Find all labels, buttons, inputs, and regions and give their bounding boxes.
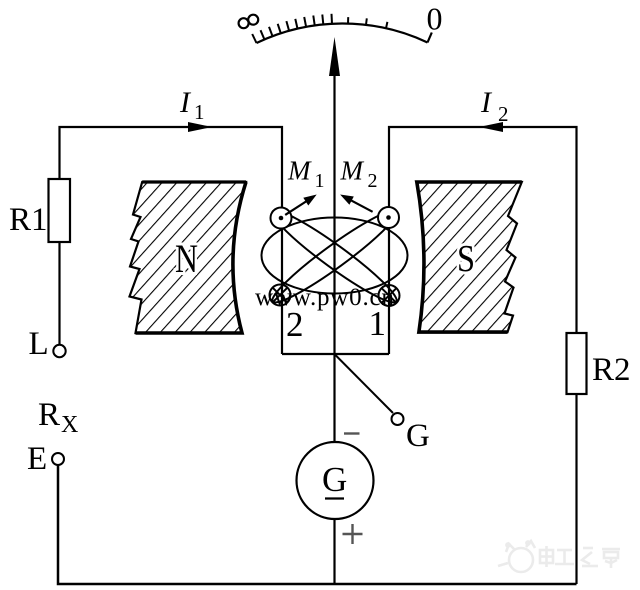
glyph 1 [540, 550, 553, 563]
svg-text:R: R [38, 397, 60, 433]
svg-text:R1: R1 [9, 202, 48, 238]
terminal L [53, 345, 65, 357]
coil 2 tilted ellipse (top-right to bottom-left) [266, 202, 403, 310]
resistor R1 [58, 242, 60, 345]
svg-text:M: M [287, 156, 312, 186]
svg-text:2: 2 [498, 102, 509, 126]
svg-text:1: 1 [315, 170, 325, 192]
switch terminal G [392, 413, 404, 425]
coil 1 tilted ellipse (top-left to bottom-right) [266, 202, 403, 310]
scale tick marks [252, 14, 387, 43]
glyph 4 [602, 548, 620, 551]
svg-text:M: M [340, 156, 365, 186]
wire top-left horizontal I1 branch [60, 127, 283, 354]
svg-text:www.pw0.cn: www.pw0.cn [255, 284, 395, 311]
resistor R2 [575, 394, 577, 584]
svg-text:1: 1 [194, 100, 205, 124]
magnet pole N [130, 182, 247, 333]
terminal E [52, 453, 64, 465]
switch blade wire [335, 355, 393, 414]
svg-text:0: 0 [427, 1, 443, 37]
svg-text:L: L [29, 326, 49, 362]
generator G [297, 442, 374, 519]
generator plus terminal [343, 524, 363, 544]
svg-text:E: E [27, 441, 47, 477]
moving coil: outer ellipse [262, 218, 408, 294]
svg-text:G: G [406, 418, 430, 454]
generator minus terminal [344, 432, 360, 434]
coil lead cross symbol bottom-left [270, 285, 291, 306]
coil lead dot symbol top-right [378, 207, 399, 228]
torque arrow M2 [350, 200, 373, 212]
svg-text:X: X [61, 412, 78, 438]
wire top-right horizontal I2 branch [389, 127, 577, 354]
needle arrowhead [329, 37, 340, 76]
torque arrow M1 [285, 202, 306, 215]
current arrow I1 [188, 122, 212, 132]
bottom wire from E to right branch [58, 465, 577, 584]
scale end hook right [428, 33, 432, 43]
magnet pole S [417, 182, 522, 332]
scale arc [257, 23, 428, 43]
coil frame box bottom [282, 353, 389, 355]
svg-text:R2: R2 [592, 352, 631, 388]
svg-text:G: G [322, 460, 347, 499]
needle pointer shaft (center vertical wire) [333, 60, 335, 584]
faint site watermark bottom right [498, 541, 620, 572]
infinity scale label [239, 15, 259, 29]
glyph 2 [557, 549, 572, 552]
svg-text:N: N [175, 236, 198, 281]
glyph 3 [583, 547, 593, 550]
svg-text:S: S [457, 238, 475, 280]
svg-text:2: 2 [368, 170, 378, 192]
current arrow I2 [479, 122, 503, 132]
coil lead dot symbol top-left [271, 208, 292, 229]
coil lead cross symbol bottom-right [379, 285, 400, 306]
